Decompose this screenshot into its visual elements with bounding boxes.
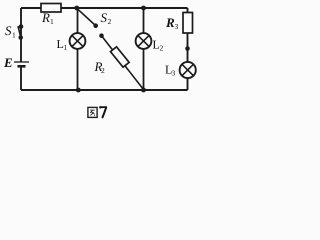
- svg-text:1: 1: [12, 31, 16, 40]
- svg-text:2: 2: [101, 66, 105, 75]
- switch S1 blade: [18, 26, 21, 37]
- battery E short plate: [18, 65, 26, 68]
- svg-text:3: 3: [172, 69, 176, 78]
- wire: top rail: [21, 7, 188, 9]
- svg-text:1: 1: [64, 43, 68, 52]
- node C (bottom junction of L1 branch): [76, 88, 81, 93]
- switch S1 top contact dot: [19, 24, 24, 29]
- svg-text:R: R: [41, 10, 50, 25]
- wire: right branch vertical: [187, 8, 189, 90]
- resistor R2 (rotated box): [110, 47, 129, 67]
- switch S1 bottom contact dot: [18, 35, 23, 40]
- node B (top junction of L2 branch): [141, 6, 146, 11]
- lamp L3: [180, 62, 196, 78]
- caption: figure number 7: [100, 107, 106, 118]
- resistor R1: [41, 4, 61, 13]
- svg-text:S: S: [101, 10, 108, 25]
- resistor R3: [183, 13, 193, 34]
- wire: bottom rail: [21, 89, 188, 91]
- lamp L1: [70, 33, 86, 49]
- wire: left branch upper (top rail to battery): [20, 8, 22, 62]
- lamp L2: [136, 33, 152, 49]
- svg-text:R: R: [165, 15, 175, 30]
- svg-text:2: 2: [108, 17, 112, 26]
- svg-text:1: 1: [50, 17, 54, 26]
- wire: L2 branch vertical: [143, 8, 145, 90]
- caption: hand-drawn CJK glyph 图: [88, 107, 97, 117]
- node A (top junction of L1 branch): [74, 6, 79, 11]
- wire: left branch lower (battery to bottom rail): [20, 67, 22, 91]
- svg-text:2: 2: [160, 44, 164, 53]
- svg-text:3: 3: [175, 22, 179, 31]
- svg-text:E: E: [3, 55, 13, 70]
- node D (bottom junction of L2/R2 branch): [141, 88, 146, 93]
- wire: diagonal from S2 contact through R2 to node D: [102, 36, 144, 90]
- switch S2 fixed contact dot: [99, 33, 104, 38]
- battery E long plate: [14, 61, 29, 63]
- svg-text:S: S: [5, 23, 12, 38]
- switch S2 blade tip dot: [93, 23, 98, 28]
- wire: L1 branch vertical: [77, 8, 79, 90]
- switch S2 blade: [77, 8, 96, 25]
- node E (dot between R3 and L3): [185, 46, 190, 51]
